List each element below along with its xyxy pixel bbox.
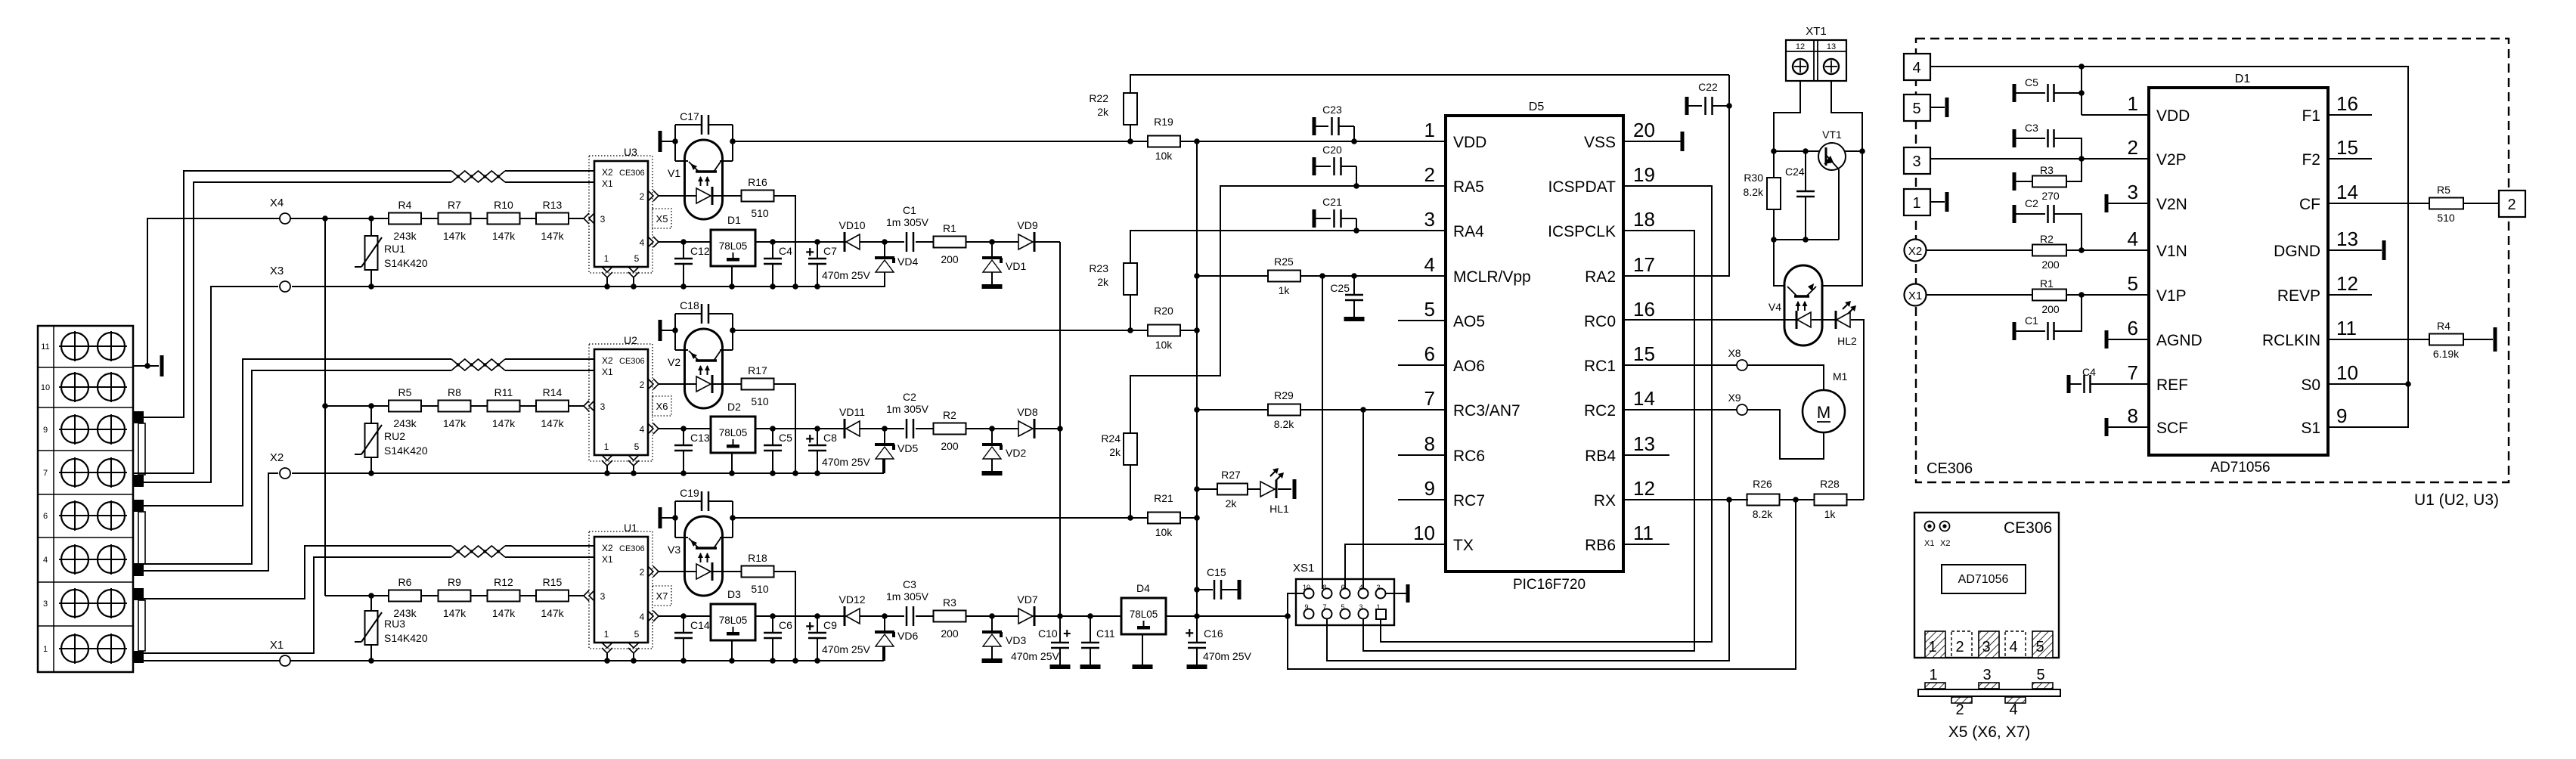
- capacitor C19: [675, 500, 701, 502]
- svg-text:VD9: VD9: [1017, 219, 1037, 231]
- junction: [814, 426, 820, 432]
- svg-text:R27: R27: [1221, 469, 1241, 481]
- junction: [792, 658, 798, 664]
- svg-text:R5: R5: [398, 386, 412, 398]
- svg-text:16: 16: [1633, 298, 1655, 321]
- wire 5V output rail: [1166, 615, 1288, 617]
- svg-text:RU3: RU3: [384, 618, 405, 630]
- wire rectified bus vertical: [1059, 242, 1061, 616]
- svg-text:VD7: VD7: [1017, 593, 1037, 606]
- junction: [680, 470, 687, 476]
- wire: [916, 428, 934, 429]
- svg-text:7: 7: [2128, 361, 2138, 384]
- diode VD11: [844, 419, 846, 438]
- wire R22 bottom: [1130, 125, 1131, 141]
- svg-text:R22: R22: [1089, 92, 1108, 104]
- svg-text:5: 5: [634, 629, 640, 640]
- svg-text:U1 (U2, U3): U1 (U2, U3): [2414, 491, 2499, 509]
- wire RA2 net: [1623, 75, 1729, 276]
- ground lead D4: [1142, 634, 1143, 665]
- resistor R28: [1815, 494, 1847, 506]
- junction: [1319, 273, 1325, 279]
- svg-text:HL2: HL2: [1837, 335, 1857, 347]
- transistor VT1: [1818, 143, 1846, 170]
- svg-text:MCLR/Vpp: MCLR/Vpp: [1453, 268, 1531, 286]
- junction: [1194, 486, 1200, 492]
- pad 3: [1979, 631, 1999, 658]
- wire main row: [733, 330, 1130, 331]
- node X3: [280, 281, 290, 292]
- wire: [916, 615, 934, 617]
- svg-text:6: 6: [1424, 342, 1435, 365]
- svg-text:2: 2: [2507, 197, 2516, 213]
- svg-text:15: 15: [2336, 136, 2358, 159]
- resistor R17: [742, 379, 774, 390]
- svg-text:8.2k: 8.2k: [1753, 508, 1773, 520]
- svg-text:C14: C14: [690, 619, 710, 631]
- capacitor C3: [906, 606, 908, 626]
- varistor RU2: [365, 423, 378, 457]
- wire chain: [371, 405, 389, 407]
- svg-text:D1: D1: [727, 214, 741, 226]
- svg-text:147k: 147k: [443, 230, 467, 242]
- svg-text:S14K420: S14K420: [384, 632, 428, 644]
- resistor R5: [2429, 198, 2463, 209]
- svg-text:6: 6: [43, 512, 48, 521]
- svg-text:REF: REF: [2156, 376, 2188, 394]
- optocoupler V3: [685, 516, 723, 596]
- resistor R15: [536, 590, 569, 602]
- frame contact: [659, 320, 662, 341]
- IC U3 body: [594, 161, 648, 267]
- svg-text:R6: R6: [398, 576, 412, 588]
- svg-text:VD11: VD11: [839, 406, 865, 418]
- zener VD4: [884, 242, 885, 258]
- svg-text:10k: 10k: [1155, 339, 1173, 351]
- svg-text:X2: X2: [1908, 245, 1922, 258]
- twisted pair crossing: [451, 359, 505, 370]
- U3 pin 5 wire: [633, 277, 634, 287]
- junction: [2078, 156, 2085, 162]
- svg-text:1: 1: [2128, 92, 2138, 115]
- wire pin2: [659, 383, 696, 385]
- resistor R1: [934, 237, 966, 248]
- svg-text:1: 1: [1424, 119, 1435, 141]
- svg-text:510: 510: [751, 395, 769, 407]
- resistor R18: [742, 566, 774, 578]
- wire RC3 line: [1197, 409, 1268, 410]
- junction: [2078, 90, 2085, 96]
- junction: [814, 613, 820, 619]
- junction: [792, 283, 798, 290]
- svg-text:C5: C5: [2025, 76, 2038, 88]
- wire to rail: [774, 196, 796, 287]
- junction: [2078, 64, 2085, 70]
- svg-text:R26: R26: [1753, 478, 1772, 490]
- junction: [729, 470, 735, 476]
- svg-text:13: 13: [1633, 432, 1655, 455]
- svg-text:VD2: VD2: [1006, 447, 1026, 459]
- zener VD5: [884, 429, 885, 445]
- wire VDD to XS1 pin10: [1288, 500, 1796, 669]
- sensor module U3 dotted outline: [589, 156, 653, 273]
- frame contact: [1238, 580, 1242, 599]
- XS1 pin 5: [1341, 609, 1350, 619]
- svg-text:AO6: AO6: [1453, 358, 1485, 375]
- junction: [770, 239, 776, 245]
- junction: [1194, 613, 1200, 619]
- stub RC6: [1398, 454, 1446, 456]
- resistor R23: [1124, 263, 1137, 295]
- junction: [729, 658, 735, 664]
- svg-text:8: 8: [1322, 584, 1326, 591]
- node X1: [280, 655, 290, 666]
- frame contact: [2494, 327, 2497, 352]
- wire XT1-13 down: [1831, 81, 1862, 151]
- svg-text:2k: 2k: [1097, 276, 1109, 288]
- svg-text:AO5: AO5: [1453, 313, 1485, 330]
- U3 pin 1 wire: [606, 277, 608, 287]
- frame contact: [2382, 240, 2386, 260]
- svg-text:9: 9: [1424, 477, 1435, 500]
- svg-text:270: 270: [2041, 190, 2060, 202]
- svg-text:R16: R16: [748, 176, 767, 188]
- wire X9 to M1: [1747, 410, 1824, 459]
- svg-text:X2: X2: [1940, 539, 1950, 548]
- wire XT1-12 down: [1774, 81, 1800, 151]
- svg-text:S14K420: S14K420: [384, 445, 428, 457]
- capacitor C20: [1313, 157, 1316, 175]
- capacitor C13: [683, 429, 684, 445]
- svg-text:C19: C19: [680, 487, 699, 499]
- svg-text:X5: X5: [656, 213, 668, 225]
- resistor R13: [536, 213, 569, 225]
- optocoupler V1: [685, 140, 723, 219]
- svg-text:C5: C5: [779, 432, 792, 444]
- svg-text:AD71056: AD71056: [1958, 573, 2009, 586]
- svg-text:U1: U1: [624, 522, 637, 534]
- terminal block: [38, 326, 133, 672]
- svg-text:R18: R18: [748, 552, 767, 564]
- svg-text:5: 5: [634, 441, 640, 452]
- svg-text:RA2: RA2: [1585, 268, 1616, 286]
- junction: [631, 470, 637, 476]
- U1 pin 2 chevron: [648, 566, 653, 577]
- svg-text:2: 2: [640, 379, 645, 390]
- wire RCLKIN line: [2328, 339, 2429, 340]
- sensor module U1 dotted outline: [589, 531, 653, 649]
- resistor R16: [742, 191, 774, 202]
- wire XS1 pin3 to ICSPCLK: [1363, 231, 1694, 651]
- capacitor C1: [2013, 322, 2016, 340]
- svg-text:147k: 147k: [541, 417, 564, 429]
- ground bar: [1133, 665, 1153, 669]
- zener VD2: [991, 429, 993, 445]
- svg-text:V1: V1: [668, 167, 680, 179]
- svg-text:6: 6: [1341, 584, 1344, 591]
- svg-text:510: 510: [2437, 212, 2455, 224]
- varistor RU1: [365, 236, 378, 270]
- capacitor C24: [1805, 151, 1806, 191]
- svg-text:R1: R1: [2040, 277, 2054, 290]
- junction: [989, 426, 995, 432]
- pad 2: [1951, 631, 1972, 658]
- stub F2: [2328, 158, 2372, 160]
- wire: [1035, 615, 1060, 617]
- junction: [368, 593, 374, 599]
- svg-text:2: 2: [640, 567, 645, 578]
- svg-text:3: 3: [1359, 603, 1362, 611]
- junction: [1057, 426, 1063, 432]
- U3 pin 3 chevron: [589, 213, 594, 224]
- resistor R8: [439, 401, 471, 412]
- resistor R1: [2032, 290, 2066, 301]
- junction: [1351, 138, 1357, 144]
- svg-text:F2: F2: [2302, 151, 2320, 169]
- ground bar: [1080, 665, 1101, 669]
- svg-text:3: 3: [600, 401, 606, 412]
- resistor R27: [1217, 484, 1248, 495]
- svg-text:243k: 243k: [393, 417, 417, 429]
- wire MCLR to XS1 pin8: [1322, 276, 1323, 589]
- node X8: [1737, 360, 1747, 370]
- svg-text:R10: R10: [494, 199, 513, 211]
- svg-text:C17: C17: [680, 110, 699, 122]
- wire: [674, 125, 676, 161]
- node dot: [144, 363, 150, 369]
- zener VD3: [991, 616, 993, 632]
- svg-text:14: 14: [1633, 387, 1655, 410]
- svg-text:78L05: 78L05: [719, 240, 748, 252]
- U1 pin 4 chevron: [648, 611, 653, 621]
- svg-text:3: 3: [1982, 667, 1991, 683]
- svg-text:243k: 243k: [393, 607, 417, 619]
- wire U2 X1 from row4: [133, 370, 451, 564]
- wire: [674, 314, 676, 350]
- svg-text:C23: C23: [1322, 104, 1342, 116]
- capacitor C9 electrolytic: [817, 616, 818, 633]
- wire VT1 bottom rail: [1774, 239, 1839, 240]
- resistor R12: [488, 590, 520, 602]
- svg-text:4: 4: [1912, 60, 1920, 76]
- U3 pin 1 chevron: [602, 267, 612, 272]
- frame contact V2N: [2105, 194, 2109, 212]
- U1 pin 5 chevron: [628, 643, 639, 648]
- junction: [1057, 613, 1063, 619]
- junction: [368, 283, 374, 290]
- svg-text:VSS: VSS: [1584, 134, 1616, 151]
- resistor R11: [488, 401, 520, 412]
- svg-text:AGND: AGND: [2156, 332, 2202, 349]
- svg-text:470m 25V: 470m 25V: [1011, 650, 1059, 662]
- junction: [1127, 327, 1133, 333]
- svg-text:VD5: VD5: [897, 442, 918, 454]
- svg-text:11: 11: [2336, 317, 2357, 339]
- junction: [1127, 515, 1133, 521]
- wire RA5 line via R24: [1130, 186, 1446, 433]
- svg-text:R5: R5: [2437, 184, 2450, 196]
- varistor RU3: [365, 611, 378, 645]
- svg-text:10: 10: [41, 383, 50, 392]
- svg-text:510: 510: [751, 207, 769, 219]
- svg-text:X9: X9: [1728, 392, 1741, 404]
- svg-text:C7: C7: [823, 245, 837, 257]
- capacitor C6: [772, 616, 773, 633]
- wire RC3 to XS1 pin4: [1362, 410, 1364, 589]
- U1 pin 5 wire: [633, 653, 634, 661]
- svg-text:R19: R19: [1154, 116, 1173, 128]
- diode VD8: [1018, 421, 1033, 436]
- ground bar: [1344, 317, 1365, 321]
- frame contact: [659, 507, 662, 528]
- svg-text:470m 25V: 470m 25V: [822, 269, 870, 281]
- light arrows: [700, 553, 702, 562]
- svg-text:C15: C15: [1207, 566, 1226, 578]
- svg-text:C4: C4: [779, 245, 792, 257]
- wire RC0 line: [1623, 319, 1796, 321]
- junction: [631, 658, 637, 664]
- XS1 pin 6: [1341, 589, 1350, 599]
- wire U3 X2 from row9: [133, 171, 451, 417]
- IC D1 AD71056: [2149, 88, 2328, 455]
- wire pad4 to S0 rail: [1930, 67, 2408, 384]
- junction: [631, 283, 637, 290]
- U2 pin 2 chevron: [648, 379, 653, 389]
- wire S0 line: [2328, 383, 2408, 385]
- svg-text:200: 200: [2041, 259, 2060, 271]
- svg-text:RB6: RB6: [1585, 537, 1616, 554]
- pad 5: [2032, 631, 2053, 658]
- wire TX to XS1 pin6: [1345, 544, 1446, 589]
- svg-text:6.19k: 6.19k: [2433, 348, 2460, 360]
- svg-text:4: 4: [640, 237, 645, 248]
- svg-text:13: 13: [1827, 42, 1836, 51]
- svg-text:C22: C22: [1698, 81, 1718, 93]
- svg-text:4: 4: [1359, 584, 1362, 591]
- U3 pin 4 chevron: [648, 237, 653, 247]
- junction: [1194, 407, 1200, 413]
- capacitor C7 electrolytic: [817, 242, 818, 259]
- wire pin4 chain: [659, 615, 711, 617]
- svg-text:R11: R11: [494, 386, 513, 398]
- svg-text:R13: R13: [543, 199, 563, 211]
- wire: [755, 615, 904, 617]
- junction: [1859, 148, 1865, 154]
- node X2 pad: [1905, 240, 1927, 262]
- wire RX line: [1623, 499, 1748, 500]
- svg-text:X1: X1: [270, 639, 284, 652]
- svg-text:R29: R29: [1274, 389, 1294, 401]
- wire XS1 pin1 to ICSPDAT: [1381, 186, 1712, 642]
- svg-text:R20: R20: [1154, 305, 1173, 317]
- pad 4: [2005, 631, 2026, 658]
- svg-text:V1N: V1N: [2156, 243, 2187, 260]
- module U1 dashed outline: [1916, 39, 2509, 482]
- junction: [680, 239, 687, 245]
- frame contact SCF: [2105, 418, 2109, 436]
- wire chain: [371, 218, 389, 219]
- junction: [1194, 138, 1200, 144]
- svg-text:9: 9: [43, 426, 48, 435]
- svg-text:2k: 2k: [1097, 106, 1109, 118]
- junction: [882, 426, 888, 432]
- junction: [1360, 407, 1366, 413]
- svg-text:X1: X1: [1924, 539, 1934, 548]
- ground lead: [731, 640, 733, 661]
- svg-text:4: 4: [1424, 253, 1435, 276]
- XS1 pin 1: [1376, 609, 1386, 619]
- wire RC1 to X8: [1623, 364, 1737, 366]
- svg-text:RC7: RC7: [1453, 492, 1485, 510]
- svg-text:V1P: V1P: [2156, 287, 2187, 305]
- svg-text:VT1: VT1: [1822, 129, 1842, 141]
- wire to rail: [774, 572, 796, 661]
- junction: [680, 426, 687, 432]
- svg-text:3: 3: [1424, 208, 1435, 231]
- capacitor C18: [675, 313, 701, 314]
- diode VD10: [844, 232, 846, 252]
- svg-text:7: 7: [43, 469, 48, 478]
- svg-text:R3: R3: [943, 596, 956, 609]
- U2 pin 1 wire: [606, 466, 608, 473]
- wire rail2 (X2 net): [292, 457, 883, 473]
- svg-text:147k: 147k: [541, 230, 564, 242]
- svg-text:2: 2: [640, 191, 645, 202]
- svg-text:VDD: VDD: [2156, 107, 2190, 125]
- wire left to V4: [1774, 240, 1785, 286]
- junction: [604, 658, 610, 664]
- wire row11 to frame: [133, 365, 159, 367]
- svg-text:4: 4: [2009, 702, 2017, 718]
- svg-text:147k: 147k: [443, 607, 467, 619]
- wire: [1180, 517, 1197, 519]
- wire: [1197, 488, 1217, 490]
- side pad 1: [1925, 683, 1945, 689]
- frame contact AGND: [2105, 330, 2109, 349]
- wire: [966, 428, 1019, 429]
- capacitor C17: [675, 124, 701, 125]
- capacitor C5: [2013, 84, 2016, 102]
- svg-text:X2: X2: [602, 167, 613, 178]
- wire: [674, 501, 676, 537]
- diode VD12: [844, 606, 846, 626]
- wire XS1 pin7 to RX: [1327, 500, 1729, 661]
- regulator D4 78L05: [1121, 598, 1166, 634]
- XT1 screw 12: [1793, 59, 1808, 74]
- svg-text:7: 7: [1424, 387, 1435, 410]
- svg-text:X7: X7: [656, 590, 668, 602]
- junction: [680, 283, 687, 290]
- side pad 4: [2005, 697, 2026, 703]
- svg-text:RC3/AN7: RC3/AN7: [1453, 402, 1520, 420]
- svg-text:R15: R15: [543, 576, 563, 588]
- regulator D2 78L05: [711, 417, 755, 453]
- stub F1: [2328, 114, 2372, 116]
- resistor R24: [1124, 433, 1137, 465]
- stub RB4: [1623, 454, 1669, 456]
- zener VD1: [991, 242, 993, 258]
- junction: [2078, 292, 2085, 298]
- regulator D3 78L05: [711, 604, 755, 640]
- svg-text:V2: V2: [668, 356, 680, 368]
- svg-text:D3: D3: [727, 588, 741, 600]
- resistor R7: [439, 213, 471, 225]
- svg-text:200: 200: [941, 627, 959, 640]
- svg-text:3: 3: [43, 599, 48, 609]
- junction: [1793, 497, 1799, 503]
- svg-text:3: 3: [1912, 153, 1920, 170]
- frame contact: [160, 355, 164, 376]
